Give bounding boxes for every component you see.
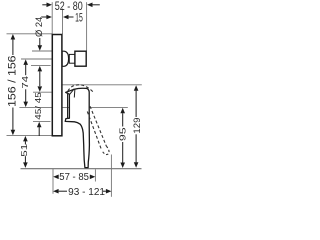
dashed open lever edge B (87, 112, 101, 151)
svg-text:15: 15 (75, 13, 83, 25)
O24 upper arrow (39, 38, 41, 46)
svg-text:93 - 121: 93 - 121 (68, 187, 105, 198)
svg-text:51: 51 (19, 143, 29, 156)
svg-text:Ø 24: Ø 24 (34, 17, 44, 37)
wall plate (side view) (52, 35, 62, 136)
cartridge sleeve dome (62, 51, 68, 66)
dimension 74 (23, 59, 28, 65)
dimension 156/156 (11, 34, 16, 40)
lever inner contour (diagonal) (70, 89, 75, 95)
extension line: open lever tip projection (110, 155, 112, 197)
axis line: sleeve center (21, 58, 66, 60)
dimension 129 (134, 85, 139, 91)
axis line: lever pivot (19, 106, 127, 108)
extension line: closed lever tip projection (94, 169, 96, 181)
dimension 57-85 arrows (53, 175, 59, 180)
extension line: wall at bottom dims (52, 169, 54, 194)
dimension 93-121 arrows (53, 189, 59, 194)
dashed open lever edge A (90, 106, 106, 146)
dashed open lever tip cap (102, 146, 109, 155)
extension line: open lever peak (129 top) (63, 84, 142, 86)
lever crease at head (73, 89, 76, 98)
dashed lever head (open position) (68, 85, 94, 92)
extension line: knob face (52-80 right) (86, 2, 88, 51)
extension line: plate bottom (156/51) (7, 134, 53, 136)
45/45 upper (down) arrow (38, 86, 43, 92)
dimension 95 (120, 108, 125, 114)
dimension 52-80 arrows (42, 4, 47, 6)
dimension 51 (23, 136, 28, 142)
extension line: lever top (45/45) (33, 91, 52, 93)
svg-text:95: 95 (117, 127, 127, 141)
neck between sleeve and knob (69, 54, 75, 63)
extension line: sleeve top (O24) (32, 50, 52, 52)
extension line: plate top (156) (7, 33, 53, 35)
reference line: rim level (21, 168, 142, 170)
lever neck line (67, 94, 69, 119)
dimension 45/45 lower arrow (37, 122, 42, 128)
extension line: sleeve face (15) (62, 9, 64, 35)
svg-text:45/ 45: 45/ 45 (33, 92, 43, 120)
knob / handle hub (75, 51, 86, 66)
dimension 15 arrows (41, 16, 46, 18)
svg-text:74: 74 (20, 76, 30, 89)
svg-text:57 - 85: 57 - 85 (59, 172, 89, 183)
svg-text:52 - 80: 52 - 80 (55, 0, 83, 13)
extension line: lever neck bottom (45/45) (33, 120, 51, 122)
lever handle (closed position) (65, 88, 89, 167)
extension line: wall plane / plate back (51, 2, 53, 34)
svg-text:129: 129 (132, 117, 142, 133)
extension line: sleeve bottom (O24) (31, 65, 51, 67)
svg-text:156 / 156: 156 / 156 (6, 55, 18, 107)
O24 lower arrow + stem to 45/45 arrow (38, 66, 43, 72)
